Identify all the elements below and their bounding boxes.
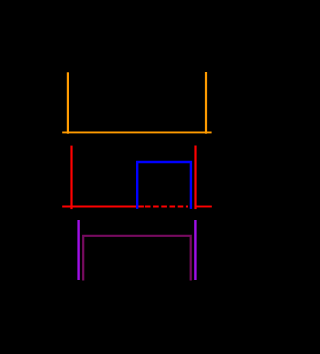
node D: red impulse right [194,146,196,210]
node A: orange impulse left [67,72,69,133]
node C: red impulse left [70,146,72,210]
node B: orange impulse right [205,72,207,134]
node F: violet impulse right [194,220,196,280]
wire: red baseline solid left [62,206,144,208]
wire: blue rectangular pulse [137,162,191,209]
wire: red baseline dashed middle [145,206,188,208]
wire: dark purple rectangular pulse [83,236,191,281]
wire: red baseline solid right [197,206,212,208]
wire: orange baseline (top axis) [62,131,211,133]
node E: violet impulse left [77,220,79,280]
